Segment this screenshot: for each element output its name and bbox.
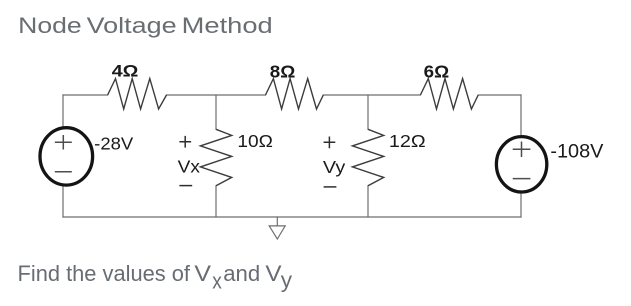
svg-text:Vy: Vy <box>323 157 345 177</box>
svg-text:10Ω: 10Ω <box>237 131 273 151</box>
svg-text:V: V <box>265 261 281 286</box>
svg-text:y: y <box>281 268 293 293</box>
svg-text:6Ω: 6Ω <box>424 62 450 82</box>
svg-text:8Ω: 8Ω <box>270 62 296 82</box>
svg-text:V: V <box>194 261 211 286</box>
svg-text:4Ω: 4Ω <box>112 62 139 81</box>
svg-text:-28V: -28V <box>94 133 133 153</box>
svg-text:and: and <box>223 261 260 286</box>
svg-text:12Ω: 12Ω <box>389 131 426 151</box>
svg-text:Vx: Vx <box>178 156 200 176</box>
svg-text:-108V: -108V <box>550 142 603 163</box>
svg-text:Method: Method <box>182 13 273 38</box>
svg-text:Find the values of: Find the values of <box>18 261 191 286</box>
svg-text:Voltage: Voltage <box>87 13 177 38</box>
svg-text:Node: Node <box>18 13 81 38</box>
svg-text:x: x <box>212 268 222 293</box>
